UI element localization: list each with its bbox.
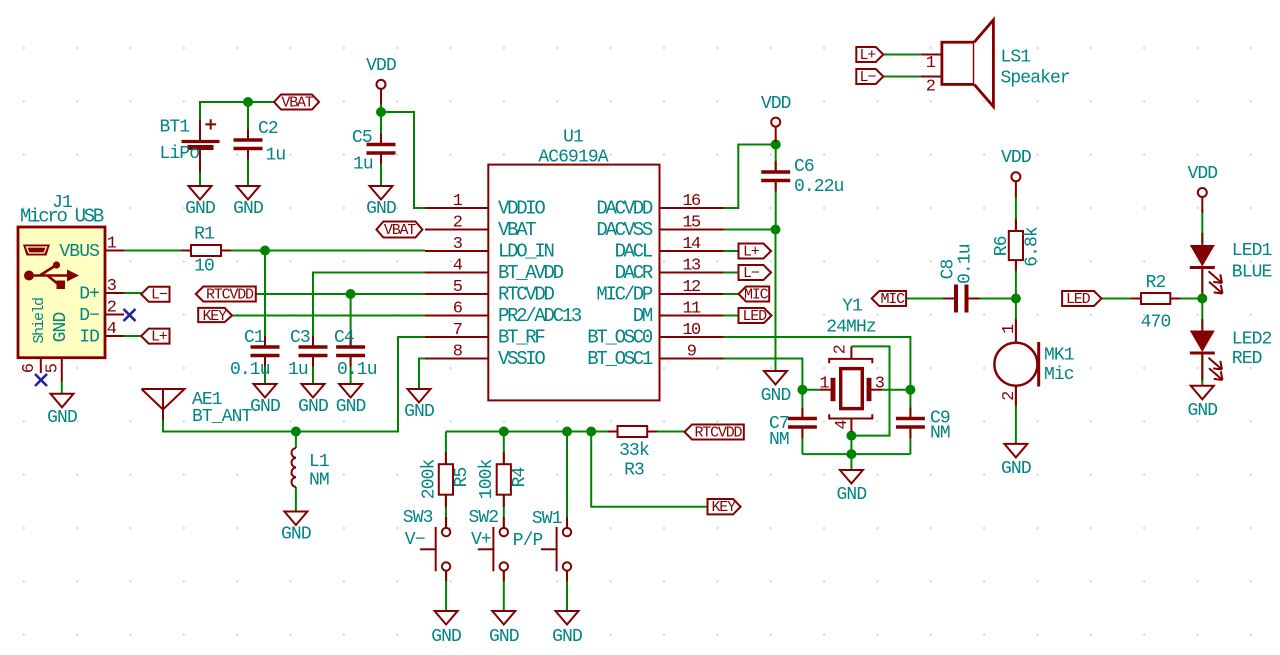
svg-text:RTCVDD: RTCVDD (498, 284, 555, 306)
capacitor C2 1u (234, 119, 286, 166)
wire U1 pin8 to GND (419, 359, 425, 390)
svg-text:GND: GND (404, 402, 434, 422)
wire C9 bottom (909, 427, 911, 454)
svg-text:L−: L− (743, 265, 760, 282)
svg-text:11: 11 (682, 300, 701, 319)
ground SW1 (552, 611, 582, 647)
svg-text:14: 14 (682, 235, 701, 254)
wire RTCVDD to U1 pin 5 (256, 293, 425, 295)
svg-text:1: 1 (107, 235, 117, 254)
wire L+ label to speaker pin1 (883, 54, 921, 56)
svg-text:KEY: KEY (712, 499, 737, 516)
svg-text:VDD: VDD (1187, 164, 1217, 184)
svg-text:10: 10 (682, 321, 701, 340)
label L- at J1 (141, 287, 169, 304)
svg-text:4: 4 (833, 420, 852, 430)
wire MK1 to GND (1015, 386, 1017, 444)
svg-text:DACVSS: DACVSS (596, 219, 653, 241)
svg-text:8: 8 (453, 343, 463, 362)
junction crystal pin1 (797, 385, 807, 395)
svg-text:4: 4 (107, 320, 117, 339)
junction SW1 (562, 427, 572, 437)
ground C5 (366, 186, 396, 219)
wire C7 bottom (801, 427, 803, 454)
pin 6 U1 PR2/ADC13 (425, 300, 582, 328)
wire C5 to GND (380, 153, 382, 186)
svg-text:BT_AVDD: BT_AVDD (498, 262, 564, 284)
label L+ at J1 (141, 329, 169, 346)
svg-text:U1: U1 (563, 128, 583, 148)
power VDD at R6 (1001, 148, 1031, 197)
svg-text:VBAT: VBAT (498, 219, 536, 241)
svg-text:GND: GND (185, 199, 215, 219)
wire crystal pin4 to bus (850, 432, 852, 470)
svg-text:Speaker: Speaker (1001, 69, 1070, 89)
wire C8 to junction (969, 298, 1016, 300)
pin 6 J1 (20, 358, 41, 374)
wire switch bus to R3 (446, 431, 618, 433)
svg-text:200k: 200k (420, 459, 440, 499)
svg-text:L−: L− (860, 69, 877, 86)
svg-text:12: 12 (682, 278, 700, 297)
svg-text:BT1: BT1 (160, 118, 190, 138)
svg-text:Mic: Mic (1044, 365, 1074, 385)
svg-text:2: 2 (832, 345, 851, 354)
svg-text:0.1u: 0.1u (956, 244, 976, 284)
ground MK1 (1001, 444, 1031, 479)
svg-text:GND: GND (51, 313, 71, 343)
pin 5 J1 (44, 358, 63, 394)
svg-text:NM: NM (930, 424, 950, 444)
wire SW2 to GND (503, 571, 505, 611)
wire U1 pin11 to LED (724, 315, 739, 317)
svg-text:GND: GND (47, 408, 77, 428)
wire U1 pin14 to L+ (724, 250, 739, 252)
junction crystal gnd bus (846, 449, 856, 459)
junction C6/VDD (771, 140, 781, 150)
wire crystal pin3 (882, 389, 910, 391)
wire L1 drop (295, 432, 297, 449)
svg-text:PR2/ADC13: PR2/ADC13 (498, 305, 582, 327)
resistor R6 6.8k (992, 219, 1043, 271)
svg-text:LS1: LS1 (1001, 48, 1031, 68)
junction crystal pin3 (905, 385, 915, 395)
junction R2/LED (1197, 294, 1207, 304)
svg-text:9: 9 (687, 343, 697, 362)
svg-text:3: 3 (107, 277, 117, 296)
wire VDD to C5 (380, 103, 382, 145)
svg-text:BT_OSC1: BT_OSC1 (587, 348, 653, 370)
svg-text:1u: 1u (353, 155, 373, 175)
svg-text:GND: GND (233, 199, 263, 219)
resistor R1 10 (181, 225, 231, 277)
ground C2 (233, 186, 263, 219)
wire VDD to C6 (775, 142, 777, 172)
svg-text:LED2: LED2 (1232, 330, 1272, 350)
microphone MK1 Mic (994, 319, 1073, 406)
svg-text:LED: LED (1066, 291, 1091, 308)
speaker LS1 (921, 20, 1070, 107)
svg-text:2: 2 (107, 299, 116, 318)
junction MIC/R6/MK1 (1011, 294, 1021, 304)
crystal Y1 24MHz (820, 297, 882, 433)
wire J1 pin4 to L+ label (124, 335, 141, 337)
svg-text:24MHz: 24MHz (826, 318, 876, 338)
svg-text:C5: C5 (352, 128, 372, 148)
svg-text:R6: R6 (992, 236, 1012, 256)
svg-text:0.1u: 0.1u (230, 360, 270, 380)
wire R5 top drop (445, 432, 447, 465)
svg-text:C4: C4 (334, 328, 354, 348)
ground SW2 (489, 611, 519, 647)
junction KEY (586, 427, 596, 437)
svg-text:D+: D+ (79, 285, 99, 305)
pin 9 U1 BT_OSC1 (587, 343, 723, 371)
battery BT1 LiPo (160, 118, 220, 173)
pin 4 U1 BT_AVDD (425, 257, 564, 285)
wire SW1 to GND (566, 571, 568, 611)
wire L1 to GND (295, 487, 297, 512)
label L- at U1 pin13 (739, 265, 772, 282)
svg-text:1: 1 (453, 192, 463, 211)
svg-text:GND: GND (1187, 401, 1217, 421)
svg-text:3: 3 (875, 375, 885, 394)
ground L1 (281, 512, 311, 545)
pin 13 U1 DACR (615, 257, 724, 285)
switch SW2 V+ (469, 508, 509, 581)
capacitor C7 NM (769, 408, 817, 451)
svg-text:GND: GND (336, 397, 366, 417)
wire C7 drop (801, 390, 803, 419)
wire U1 pin12 to MIC (724, 293, 739, 295)
junction RTCVDD/C4 (346, 289, 356, 299)
ground BT1 (185, 186, 215, 219)
svg-text:DACL: DACL (615, 241, 653, 263)
wire L- label to speaker pin2 (883, 76, 921, 78)
pin 3 J1 (105, 277, 124, 296)
wire C1 drop (264, 251, 266, 348)
svg-text:6: 6 (453, 300, 463, 319)
svg-text:GND: GND (837, 485, 867, 505)
ground C3 (298, 384, 328, 417)
svg-text:L1: L1 (309, 452, 329, 472)
connector J1 Micro USB (18, 193, 105, 358)
svg-text:MK1: MK1 (1044, 346, 1074, 366)
svg-text:LDO_IN: LDO_IN (498, 241, 554, 263)
svg-text:R5: R5 (452, 468, 472, 488)
LED LED2 RED (1190, 319, 1272, 381)
svg-text:16: 16 (682, 192, 701, 211)
svg-text:DACR: DACR (615, 262, 653, 284)
no-connect X pin 2 (124, 309, 136, 321)
capacitor C4 0.1u (334, 328, 377, 380)
pin 8 U1 VSSIO (425, 343, 545, 371)
resistor R2 470 (1131, 273, 1180, 333)
svg-text:10: 10 (194, 257, 214, 277)
svg-text:1u: 1u (266, 146, 286, 166)
wire LED label to R2 (1102, 298, 1142, 300)
svg-text:6: 6 (20, 363, 39, 373)
svg-text:GND: GND (281, 525, 311, 545)
svg-text:33k: 33k (619, 441, 649, 461)
op-amp U1 AC6919A body (488, 128, 659, 401)
svg-text:MIC/DP: MIC/DP (596, 284, 653, 306)
label MIC at C8 (872, 291, 906, 308)
svg-text:15: 15 (682, 214, 701, 233)
wire VDD to LED1 (1201, 210, 1203, 243)
svg-text:GND: GND (761, 386, 791, 406)
label L+ at speaker (856, 47, 883, 64)
svg-text:13: 13 (682, 257, 701, 276)
pin 5 U1 RTCVDD (425, 278, 555, 306)
label KEY at SW1 (708, 499, 741, 516)
svg-text:BT_RF: BT_RF (498, 327, 545, 349)
ground C1 (250, 384, 280, 417)
svg-text:D−: D− (79, 306, 99, 326)
wire R4 top drop (503, 432, 505, 465)
label LED at U1 pin11 (739, 308, 772, 325)
junction R1/C1 (260, 246, 270, 256)
label LED at R2 (1062, 291, 1101, 308)
ground J1 (47, 394, 77, 428)
svg-text:SW2: SW2 (469, 508, 499, 528)
inductor L1 NM (291, 448, 328, 491)
wire C4 to GND (350, 356, 352, 385)
pin 15 U1 DACVSS (596, 214, 723, 242)
svg-text:0.22u: 0.22u (794, 177, 844, 197)
LED LED1 BLUE (1190, 233, 1272, 294)
svg-text:C3: C3 (290, 328, 310, 348)
svg-text:L+: L+ (151, 329, 168, 346)
wire U1 pin15 (724, 229, 776, 231)
svg-text:LED1: LED1 (1232, 241, 1272, 261)
svg-text:R1: R1 (194, 225, 214, 245)
pin 16 U1 DACVDD (596, 192, 723, 220)
label RTCVDD at R3 (685, 425, 744, 442)
ground C4 (336, 384, 366, 417)
wire BT1/C2 to VBAT (200, 102, 274, 141)
svg-text:5: 5 (44, 363, 63, 373)
ground SW3 (431, 611, 461, 647)
wire MIC label to C8 (906, 298, 954, 300)
wire U1 pin4 to C3 (313, 273, 425, 348)
pin 11 U1 DM (633, 300, 724, 328)
wire junction to MK1 (1015, 299, 1017, 343)
svg-text:Shield: Shield (31, 298, 48, 344)
svg-text:NM: NM (769, 430, 789, 450)
wire U1 pin10 to crystal right (724, 337, 911, 390)
wire C1 to GND (264, 356, 266, 385)
capacitor C9 NM (896, 408, 950, 444)
svg-text:BT_ANT: BT_ANT (192, 407, 253, 427)
svg-text:RED: RED (1232, 349, 1262, 369)
capacitor C1 0.1u (230, 328, 280, 380)
wire J1 pin1 to R1 (124, 250, 191, 252)
svg-text:SW3: SW3 (403, 508, 433, 528)
switch SW3 V- (403, 508, 451, 581)
label RTCVDD at J1 (196, 287, 256, 304)
label MIC at U1 pin12 (739, 287, 770, 304)
pin 2 U1 VBAT (425, 214, 536, 242)
svg-text:GND: GND (250, 397, 280, 417)
wire C5 branch to U1 pin 1 (381, 112, 425, 208)
svg-text:SW1: SW1 (532, 509, 562, 529)
svg-text:DM: DM (633, 305, 653, 327)
svg-text:1u: 1u (288, 360, 308, 380)
wire U1 pin9 to crystal left (724, 359, 803, 390)
svg-text:L−: L− (151, 287, 168, 304)
capacitor C3 1u (288, 328, 328, 380)
power VDD at C5 (366, 56, 396, 104)
switch SW1 P/P (513, 509, 572, 581)
wire R6 to junction (1015, 260, 1017, 298)
svg-text:BLUE: BLUE (1232, 263, 1272, 283)
wire KEY to U1 pin 6 (232, 315, 425, 317)
svg-text:VDD: VDD (1001, 148, 1031, 168)
wire crystal pin2 loop (851, 346, 889, 435)
svg-text:NM: NM (309, 471, 329, 491)
capacitor C8 0.1u (939, 244, 980, 312)
ground LED2 (1187, 386, 1217, 421)
svg-text:C1: C1 (244, 328, 264, 348)
svg-text:1: 1 (926, 54, 936, 73)
svg-text:2: 2 (453, 214, 462, 233)
wire LED1 to LED2 (1201, 268, 1203, 329)
wire C3 to GND (312, 356, 314, 385)
svg-text:MIC: MIC (881, 291, 906, 308)
ground Y1 (837, 470, 867, 505)
svg-text:2: 2 (926, 78, 935, 97)
svg-text:VDDIO: VDDIO (498, 198, 545, 220)
pin 14 U1 DACL (615, 235, 724, 263)
svg-text:VSSIO: VSSIO (498, 348, 545, 370)
junction crystal pin4 (846, 431, 856, 441)
svg-text:4: 4 (453, 257, 463, 276)
wire crystal pin1 (802, 389, 820, 391)
svg-text:2: 2 (1000, 392, 1019, 401)
svg-text:DACVDD: DACVDD (596, 198, 653, 220)
svg-text:VBUS: VBUS (59, 242, 99, 262)
pin 10 U1 BT_OSC0 (587, 321, 723, 349)
svg-text:R2: R2 (1146, 273, 1166, 293)
svg-text:VDD: VDD (366, 56, 396, 76)
wire R5 to SW3 (445, 495, 447, 528)
svg-text:R3: R3 (624, 461, 644, 481)
wire KEY branch (591, 432, 707, 507)
wire VDD to R6 (1015, 194, 1017, 231)
resistor R5 200k (420, 452, 473, 507)
svg-text:GND: GND (431, 627, 461, 647)
svg-text:V+: V+ (471, 530, 491, 550)
no-connect X pin 6 (35, 374, 47, 386)
wire C4 drop (350, 294, 352, 347)
svg-text:1: 1 (819, 375, 829, 394)
svg-text:0.1u: 0.1u (337, 360, 377, 380)
wire C9 drop (909, 390, 911, 419)
svg-text:R4: R4 (510, 468, 530, 488)
svg-text:Y1: Y1 (842, 297, 862, 317)
pin 3 U1 LDO_IN (425, 235, 554, 263)
wire SW1 top drop (566, 432, 568, 528)
wire pin15 to GND (775, 230, 777, 372)
svg-text:1: 1 (1000, 324, 1019, 334)
label VBAT top (274, 95, 319, 112)
svg-text:GND: GND (552, 627, 582, 647)
svg-text:GND: GND (298, 397, 328, 417)
ground U1 pin8 (404, 389, 434, 422)
pin 7 U1 BT_RF (425, 321, 545, 349)
svg-text:5: 5 (453, 278, 463, 297)
svg-text:GND: GND (1001, 459, 1031, 479)
pin 12 U1 MIC/DP (596, 278, 723, 306)
pin 1 J1 (105, 235, 124, 254)
wire C2 to GND (247, 149, 249, 187)
svg-text:P/P: P/P (513, 531, 543, 551)
label VBAT at U1 pin2 (376, 222, 422, 240)
svg-text:RTCVDD: RTCVDD (206, 287, 254, 304)
wire U1 pin13 to L- (724, 272, 739, 274)
svg-text:Micro USB: Micro USB (20, 206, 104, 228)
capacitor C5 1u (352, 128, 396, 175)
wire J1 pin3 to L- label (124, 292, 141, 294)
wire U1 pin7 to antenna (163, 337, 425, 432)
label L- at speaker (856, 69, 883, 86)
svg-text:C2: C2 (258, 119, 278, 139)
svg-text:LED: LED (743, 308, 768, 325)
svg-text:470: 470 (1141, 313, 1171, 333)
wire R2 to LED junction (1170, 298, 1202, 300)
svg-text:GND: GND (489, 627, 519, 647)
wire R1 to U1 pin 3 (221, 250, 425, 252)
svg-text:6.8k: 6.8k (1023, 227, 1043, 267)
svg-text:LiPo: LiPo (160, 144, 200, 164)
svg-text:BT_OSC0: BT_OSC0 (587, 327, 653, 349)
svg-text:L+: L+ (743, 244, 760, 261)
antenna AE1 BT_ANT (142, 389, 253, 427)
capacitor C6 0.22u (761, 157, 843, 197)
junction C5/VDD (376, 107, 386, 117)
svg-text:100k: 100k (477, 459, 497, 499)
svg-text:RTCVDD: RTCVDD (695, 425, 743, 442)
svg-text:KEY: KEY (203, 308, 228, 325)
power VDD at LED1 (1187, 164, 1217, 213)
svg-text:V−: V− (405, 530, 425, 550)
svg-text:C6: C6 (794, 157, 814, 177)
wire C6 to pin15 junction (775, 181, 777, 230)
junction pin15 (771, 225, 781, 235)
pin 4 J1 (105, 320, 124, 339)
ground DACVSS (761, 371, 791, 406)
label KEY at J1 (198, 308, 232, 325)
power VDD at C6 (761, 94, 791, 142)
wire LED2 to GND (1201, 354, 1203, 386)
wire SW3 to GND (445, 571, 447, 611)
pin 1 U1 VDDIO (425, 192, 545, 220)
wire R4 to SW2 (503, 495, 505, 528)
resistor R4 100k (477, 452, 530, 507)
wire crystal ground bus (802, 453, 910, 455)
svg-text:L+: L+ (860, 47, 877, 64)
svg-text:GND: GND (366, 199, 396, 219)
svg-text:VBAT: VBAT (281, 95, 313, 112)
wire U1 pin16 to C6 (724, 145, 776, 209)
svg-text:VDD: VDD (761, 94, 791, 114)
wire C2 top (247, 102, 249, 140)
svg-text:VBAT: VBAT (384, 222, 416, 239)
svg-text:7: 7 (453, 321, 462, 340)
junction VBAT (243, 97, 253, 107)
resistor R3 33k (608, 426, 658, 481)
